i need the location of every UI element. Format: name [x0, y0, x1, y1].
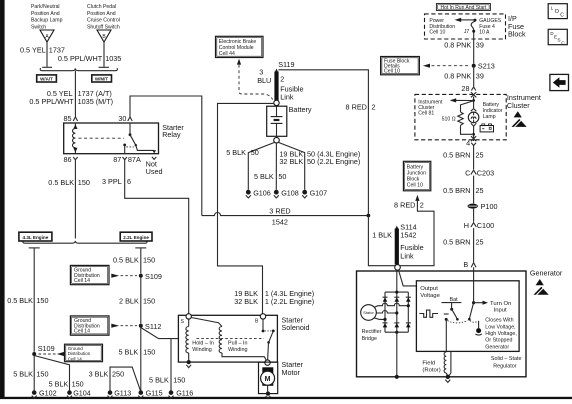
turn on input: [472, 267, 511, 313]
svg-text:30: 30: [118, 114, 126, 123]
svg-text:Turn On: Turn On: [490, 301, 511, 307]
svg-text:28: 28: [461, 84, 469, 93]
svg-text:5 BLK: 5 BLK: [13, 370, 33, 379]
svg-text:0.8 PNK: 0.8 PNK: [444, 72, 471, 81]
svg-text:150: 150: [173, 376, 185, 385]
svg-text:Closes With: Closes With: [485, 318, 513, 324]
svg-text:Lamp: Lamp: [483, 114, 496, 120]
wire from switch B, 0.5 PPL/WHT 1035: [58, 42, 121, 67]
svg-text:86: 86: [64, 155, 72, 164]
wire branch to G116, 5 BLK 150: [149, 339, 185, 391]
svg-text:Motor: Motor: [282, 368, 301, 377]
generator box: [357, 269, 563, 377]
svg-text:S119: S119: [278, 60, 294, 69]
svg-text:1542: 1542: [272, 218, 288, 227]
wire 86 to engine brace, 0.5 BLK 150: [48, 160, 90, 239]
svg-text:150: 150: [72, 380, 84, 389]
svg-text:4: 4: [466, 138, 470, 147]
svg-text:Input: Input: [494, 308, 507, 314]
svg-text:G108: G108: [281, 188, 299, 197]
svg-text:5 BLK: 5 BLK: [49, 380, 69, 389]
relay pin 86: [64, 155, 78, 164]
ground G116: [169, 389, 194, 399]
svg-text:6: 6: [127, 177, 131, 186]
starter relay box: [64, 123, 185, 154]
ground G102: [32, 389, 57, 399]
svg-text:C: C: [560, 13, 564, 19]
starter motor terminal node: [265, 360, 270, 365]
svg-text:5 BLK: 5 BLK: [118, 347, 138, 356]
svg-text:Position And: Position And: [87, 11, 116, 17]
pass-through at cluster top edge: [471, 92, 476, 99]
back arrow icon: [550, 74, 569, 90]
wire junction down to S114 node: [368, 216, 395, 266]
wire S109 to S112, 2 BLK 150: [119, 278, 155, 324]
Battery Junction Block reference box: [403, 161, 430, 191]
svg-text:1035 (M/T): 1035 (M/T): [78, 97, 113, 106]
svg-text:150: 150: [143, 296, 155, 305]
svg-text:0.5 PPL/WHT: 0.5 PPL/WHT: [29, 97, 74, 106]
svg-text:0.5 BRN: 0.5 BRN: [443, 151, 470, 160]
svg-text:Hot In Run And Start: Hot In Run And Start: [440, 5, 486, 11]
svg-text:Cell 10: Cell 10: [429, 30, 445, 36]
splice S213: [472, 62, 495, 71]
svg-text:Battery: Battery: [289, 105, 312, 114]
svg-text:1542: 1542: [400, 231, 416, 240]
svg-text:S109: S109: [145, 272, 162, 281]
ESD symbol (generator): [534, 279, 549, 295]
svg-text:BLU: BLU: [257, 76, 271, 85]
svg-text:Low Voltage,: Low Voltage,: [485, 324, 515, 330]
svg-text:(Rotor): (Rotor): [422, 367, 440, 373]
svg-text:39: 39: [476, 72, 484, 81]
generator B terminal pin: [463, 260, 476, 269]
solenoid ground junction: [186, 360, 191, 368]
svg-text:S: S: [557, 38, 560, 44]
svg-text:Position And: Position And: [31, 11, 60, 17]
svg-text:87A: 87A: [128, 155, 141, 164]
svg-text:Regulator: Regulator: [493, 363, 517, 369]
svg-text:Rectifier: Rectifier: [362, 329, 382, 335]
svg-text:Stator: Stator: [363, 310, 374, 315]
svg-text:P100: P100: [481, 202, 498, 211]
wire battery node to solenoid B, 19/32 BLK: [218, 103, 315, 313]
svg-text:G113: G113: [114, 389, 131, 398]
wire fuse to S213, 0.8 PNK 39: [444, 33, 484, 64]
svg-text:Pull – In: Pull – In: [228, 341, 247, 347]
svg-text:G107: G107: [310, 188, 328, 197]
svg-text:C203: C203: [477, 169, 494, 178]
fuse 4 GAUGES 10 A: [471, 19, 476, 33]
svg-text:G116: G116: [176, 389, 193, 398]
battery ground fan wires: [226, 142, 360, 189]
solenoid contact switch: [262, 319, 275, 360]
svg-text:50: 50: [251, 148, 259, 157]
svg-text:G106: G106: [253, 188, 271, 197]
wire relay 30 to 3 RED bus: [130, 96, 202, 216]
fusible link S114 1542, 1 BLK: [372, 222, 423, 264]
pass-through at cluster bottom edge: [471, 136, 476, 142]
svg-text:4.3L Engine: 4.3L Engine: [23, 235, 49, 240]
Fuse Block Details reference box: [381, 57, 420, 75]
svg-text:8 RED: 8 RED: [346, 102, 367, 111]
svg-text:0.8 PNK: 0.8 PNK: [444, 40, 471, 49]
svg-text:G115: G115: [146, 389, 163, 398]
engine option brace (4.3L / 2.2L): [23, 241, 147, 244]
svg-text:Cell 14: Cell 14: [68, 356, 83, 361]
svg-text:S112: S112: [145, 322, 161, 331]
svg-text:2: 2: [372, 102, 376, 111]
wire from switch A, 0.5 YEL 1737: [20, 42, 65, 67]
svg-text:150: 150: [36, 296, 48, 305]
svg-text:3 PPL: 3 PPL: [102, 177, 122, 186]
ground G107: [302, 188, 327, 198]
svg-text:Park/Neutral: Park/Neutral: [31, 4, 60, 10]
svg-text:Cluster: Cluster: [507, 101, 530, 110]
svg-text:150: 150: [36, 370, 48, 379]
svg-text:150: 150: [143, 256, 155, 265]
svg-text:0.5 YEL: 0.5 YEL: [20, 46, 46, 55]
solenoid B terminal: [255, 314, 266, 325]
svg-text:0.5 PPL/WHT: 0.5 PPL/WHT: [58, 54, 103, 63]
Electronic Brake Control Module reference box: [216, 36, 264, 57]
Hot In Run And Start banner: [436, 4, 490, 12]
relay switch 30-87/87A: [123, 123, 156, 154]
svg-text:B: B: [463, 260, 468, 269]
svg-text:W/M/T: W/M/T: [95, 77, 108, 82]
svg-text:Link: Link: [400, 251, 414, 260]
svg-text:Cell 44: Cell 44: [219, 51, 235, 57]
pull-in winding: [191, 318, 266, 362]
battery icon: [480, 124, 493, 132]
stator: [361, 305, 377, 321]
svg-text:M: M: [265, 376, 271, 383]
relay pin 85: [64, 114, 78, 123]
svg-text:G104: G104: [73, 389, 91, 398]
dashed reference arrow to S109 left: [39, 352, 65, 356]
svg-text:3 BLK: 3 BLK: [89, 370, 109, 379]
svg-text:Cell 10: Cell 10: [407, 183, 423, 189]
svg-text:Output: Output: [420, 286, 438, 292]
svg-text:32 BLK: 32 BLK: [279, 157, 303, 166]
svg-text:Used: Used: [146, 167, 163, 176]
fusible link 2 BLU (3 BLU label), battery feed: [257, 68, 303, 102]
solid-state regulator box: [416, 281, 521, 370]
svg-text:H: H: [464, 221, 469, 230]
svg-text:0.5 BRN: 0.5 BRN: [443, 237, 470, 246]
2.2L branch wire, 0.5 BLK 150: [113, 248, 155, 274]
svg-text:Bridge: Bridge: [362, 336, 378, 342]
dashed reference arrow S213 to fuse block details: [423, 64, 471, 68]
wire node down to rectifier: [396, 270, 398, 292]
svg-text:C: C: [561, 40, 565, 46]
svg-text:Cell 10: Cell 10: [384, 69, 400, 75]
svg-text:C: C: [465, 169, 470, 178]
page icon LOC: [548, 4, 567, 19]
svg-text:Solenoid: Solenoid: [282, 323, 310, 332]
svg-text:25: 25: [476, 151, 484, 160]
svg-text:Cell 14: Cell 14: [74, 278, 90, 284]
svg-text:250: 250: [112, 370, 124, 379]
svg-text:J7: J7: [464, 29, 470, 35]
relay coil (85-86): [72, 123, 77, 154]
svg-text:5 BLK: 5 BLK: [254, 172, 274, 181]
wire C203 to P100, 0.5 BRN 25: [443, 176, 483, 204]
battery indicator lamp: [468, 101, 502, 136]
svg-text:0.5 BLK: 0.5 BLK: [48, 178, 74, 187]
cluster cell 81 reference arrow: [418, 98, 475, 116]
splice S109 (left): [32, 344, 54, 356]
dashed reference arrow to S112: [111, 324, 137, 328]
wire 87 to starter solenoid S, 3 PPL 6: [102, 160, 189, 314]
dashed reference arrow from battery node to ECBM: [237, 59, 273, 100]
starter motor ground: [266, 391, 271, 398]
svg-text:Block: Block: [508, 30, 526, 39]
wire S112 to starter solenoid case: [141, 328, 179, 339]
rectifier diodes top row: [383, 297, 411, 302]
solenoid linkage (dashed): [197, 338, 265, 340]
ground G104: [67, 389, 91, 399]
svg-text:2 BLK: 2 BLK: [119, 296, 139, 305]
svg-text:1 BLK: 1 BLK: [372, 230, 392, 239]
ground G106: [246, 188, 271, 198]
svg-text:25: 25: [476, 186, 484, 195]
svg-text:1035: 1035: [105, 54, 121, 63]
option brace joining A/T and M/T wires: [40, 68, 117, 71]
wire battery junction block to S114 node, 8 RED 2: [394, 195, 434, 266]
svg-text:W/A/T: W/A/T: [40, 77, 53, 82]
svg-text:87: 87: [113, 155, 121, 164]
ground distribution box 2: [70, 316, 109, 335]
field ground junction: [445, 375, 450, 383]
resistor 510 ohm: [442, 101, 474, 135]
stator phase wires: [374, 303, 410, 321]
svg-text:3 RED: 3 RED: [269, 207, 290, 216]
svg-text:25: 25: [476, 237, 484, 246]
wire S213 to cluster pin 28, 0.8 PNK 39: [444, 68, 484, 93]
splice S109: [139, 272, 162, 281]
svg-text:Relay: Relay: [162, 130, 181, 139]
voltage sense switch: [468, 303, 517, 351]
node below battery: [274, 137, 280, 143]
svg-text:Winding: Winding: [228, 347, 247, 353]
svg-text:0.5 BLK: 0.5 BLK: [113, 256, 139, 265]
wire S119 to I/P fuse block feed, 8 RED 2: [278, 70, 375, 214]
svg-text:5 BLK: 5 BLK: [226, 148, 246, 157]
svg-text:0.5 BLK: 0.5 BLK: [7, 296, 33, 305]
svg-text:50 (2.2L Engine): 50 (2.2L Engine): [307, 157, 360, 166]
svg-text:Generator: Generator: [530, 269, 563, 278]
wire node to voltage regulator sense: [398, 270, 416, 286]
svg-text:Cell 81: Cell 81: [418, 110, 434, 116]
4.3L branch wire, 0.5 BLK 150: [7, 248, 48, 352]
svg-text:Backup Lamp: Backup Lamp: [31, 18, 63, 24]
wire C100 to generator B, 0.5 BRN 25: [443, 228, 483, 262]
svg-text:Or Stopped: Or Stopped: [485, 338, 512, 344]
switch A: Park/Neutral Position And Backup Lamp Switch: [31, 4, 63, 42]
svg-text:S109: S109: [38, 344, 55, 353]
rectifier ground lead: [395, 332, 399, 379]
svg-text:S213: S213: [478, 62, 495, 71]
connector C2 C203: [465, 169, 494, 178]
field (rotor) winding: [422, 320, 451, 376]
wire brace to relay pin 85, 0.5 YEL 1737 (A/T) / 0.5 PPL/WHT 1035 (M/T): [29, 71, 113, 117]
battery: [267, 105, 312, 137]
junction of 3 RED and fuse block feed: [367, 214, 371, 218]
relay pin 30: [118, 114, 132, 123]
starter solenoid box: [178, 315, 309, 362]
svg-text:Link: Link: [280, 92, 294, 101]
svg-text:85: 85: [64, 114, 72, 123]
svg-text:2: 2: [280, 75, 284, 84]
wire pin 4 to C203, 0.5 BRN 25: [443, 146, 483, 170]
hold-in winding: [186, 319, 214, 361]
Bat contact switch: [442, 297, 468, 323]
dashed reference arrow to S109: [111, 274, 137, 278]
wire S112 to G115, 5 BLK 150: [118, 328, 155, 391]
svg-text:150: 150: [78, 178, 90, 187]
relay linkage (dashed): [79, 137, 125, 139]
power distribution arrow: [455, 18, 475, 22]
switch B: Clutch Pedal Position And Cruise Control Shutoff Switch: [87, 4, 120, 42]
splice S112: [139, 322, 162, 331]
87A not used marker: [146, 157, 163, 176]
svg-text:510 Ω: 510 Ω: [442, 116, 456, 122]
ground G115: [138, 389, 162, 399]
connector H2 C100: [464, 209, 494, 230]
wire S109 to G104, 5 BLK 150: [34, 356, 84, 391]
svg-text:Hold – In: Hold – In: [192, 341, 214, 347]
svg-text:39: 39: [476, 40, 484, 49]
W/M/T option box: [92, 75, 112, 82]
starter motor: [259, 360, 304, 393]
ground G108: [274, 188, 299, 198]
rectifier diodes bottom row: [383, 323, 411, 328]
rectifier bridge: [362, 291, 409, 342]
4.3L Engine box: [19, 232, 52, 241]
svg-text:G102: G102: [39, 389, 57, 398]
regulator waveform: [419, 310, 448, 321]
svg-text:O: O: [555, 9, 560, 15]
node at S114 / generator output: [395, 265, 401, 271]
svg-text:Generator: Generator: [485, 344, 509, 350]
ground G113: [108, 389, 132, 399]
svg-text:C100: C100: [477, 221, 494, 230]
svg-text:32 BLK: 32 BLK: [234, 297, 258, 306]
instrument cluster box (dashed): [415, 93, 541, 140]
svg-text:Clutch Pedal: Clutch Pedal: [87, 4, 116, 10]
ground distribution box 1: [70, 265, 109, 284]
svg-text:8 RED: 8 RED: [394, 201, 415, 210]
svg-text:50: 50: [278, 172, 286, 181]
svg-text:Winding: Winding: [192, 347, 211, 353]
svg-text:2: 2: [420, 201, 424, 210]
ESD symbol (instrument cluster): [512, 111, 527, 127]
W/A/T option box: [37, 75, 57, 82]
3 RED 1542 bus with hop over battery wire: [202, 207, 367, 227]
page icon DESC: [548, 29, 567, 46]
grommet P100: [468, 202, 498, 211]
2.2L Engine box: [120, 232, 152, 241]
svg-text:5 BLK: 5 BLK: [149, 376, 169, 385]
svg-text:Cruise Control: Cruise Control: [87, 18, 120, 24]
node above battery: [274, 100, 279, 105]
relay pin 87: [113, 155, 141, 164]
svg-text:0.5 BRN: 0.5 BRN: [443, 186, 470, 195]
ground distribution box 3: [65, 344, 103, 362]
svg-text:Field: Field: [422, 360, 435, 366]
svg-text:10 A: 10 A: [479, 30, 490, 36]
wire S109 to G102, 5 BLK 150: [13, 356, 48, 390]
cluster pin 4: [466, 138, 476, 147]
svg-text:Cell 14: Cell 14: [74, 329, 90, 335]
solenoid S terminal: [181, 314, 192, 326]
wire to G113, 3 BLK 250: [89, 367, 141, 391]
svg-text:High Voltage,: High Voltage,: [485, 331, 517, 337]
svg-text:1 (2.2L Engine): 1 (2.2L Engine): [265, 297, 314, 306]
svg-text:Voltage: Voltage: [420, 293, 440, 299]
I/P fuse block (dashed): [425, 14, 526, 39]
svg-text:150: 150: [143, 347, 155, 356]
svg-text:Solid – State: Solid – State: [491, 356, 522, 362]
svg-text:2.2L Engine: 2.2L Engine: [123, 235, 149, 240]
